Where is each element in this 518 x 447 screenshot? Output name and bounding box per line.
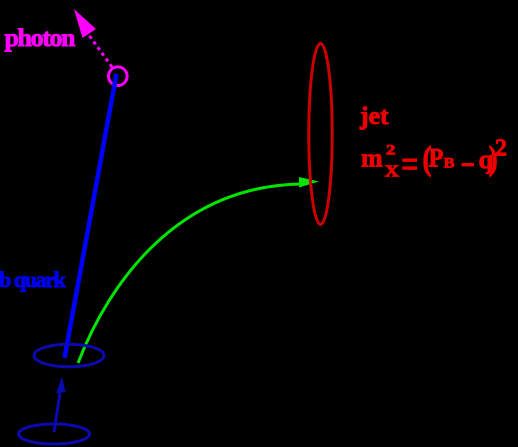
svg-text:P: P bbox=[429, 145, 444, 173]
photon dashed line bbox=[86, 31, 112, 67]
green jet curve bbox=[78, 184, 303, 363]
svg-text:X: X bbox=[385, 162, 400, 180]
green arrowhead bbox=[299, 177, 319, 188]
navy arrow shaft bbox=[54, 393, 60, 432]
photon vertex circle bbox=[109, 67, 128, 86]
bottom navy ellipse bbox=[19, 424, 90, 444]
photon arrowhead bbox=[74, 9, 96, 38]
navy arrowhead bbox=[56, 377, 66, 394]
middle navy ellipse (B meson) bbox=[34, 344, 104, 367]
svg-text:2: 2 bbox=[386, 141, 396, 158]
jet red ellipse bbox=[309, 44, 332, 225]
svg-text:photon: photon bbox=[5, 23, 76, 52]
svg-text:2: 2 bbox=[495, 135, 507, 161]
formula: equals sign bbox=[402, 159, 417, 162]
svg-text:B: B bbox=[444, 155, 455, 171]
b quark line bbox=[65, 74, 117, 358]
svg-text:b quark: b quark bbox=[0, 267, 67, 292]
formula: minus sign bbox=[462, 163, 475, 166]
svg-text:m: m bbox=[361, 143, 383, 172]
svg-text:jet: jet bbox=[359, 101, 389, 130]
